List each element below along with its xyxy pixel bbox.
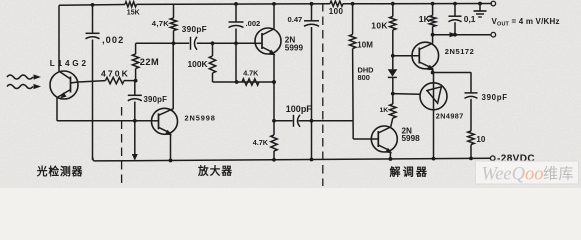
svg-text:10K: 10K: [371, 20, 388, 30]
svg-text:22M: 22M: [140, 57, 159, 67]
svg-text:4,7K: 4,7K: [152, 19, 169, 28]
svg-text:390pF: 390pF: [482, 93, 508, 102]
svg-text:100pF: 100pF: [286, 104, 313, 114]
svg-text:800: 800: [358, 73, 370, 82]
svg-text:2N5172: 2N5172: [445, 47, 475, 56]
svg-text:100K: 100K: [188, 59, 208, 69]
svg-text:5999: 5999: [285, 43, 304, 52]
svg-text:1K: 1K: [419, 14, 431, 24]
svg-text:维库: 维库: [543, 166, 574, 183]
svg-text:2N4987: 2N4987: [436, 111, 464, 120]
svg-text:390pF: 390pF: [182, 25, 207, 34]
svg-text:放大器: 放大器: [197, 165, 233, 178]
svg-text:0.47: 0.47: [288, 15, 303, 24]
svg-text:5998: 5998: [402, 134, 421, 143]
svg-text:390pF: 390pF: [144, 95, 168, 104]
svg-text:1K: 1K: [380, 107, 389, 114]
svg-text:10M: 10M: [357, 41, 373, 50]
svg-text:2N5998: 2N5998: [185, 113, 216, 122]
svg-text:0,1: 0,1: [464, 14, 476, 24]
svg-text:100: 100: [329, 7, 344, 16]
svg-text:,002: ,002: [102, 35, 124, 45]
svg-text:解调器: 解调器: [390, 164, 430, 178]
svg-text:470K: 470K: [101, 69, 130, 79]
svg-text:4.7K: 4.7K: [253, 138, 269, 147]
svg-text:L14G2: L14G2: [50, 59, 89, 68]
svg-text:15K: 15K: [127, 10, 140, 17]
svg-text:4.7K: 4.7K: [243, 68, 259, 77]
svg-text:.002: .002: [246, 19, 261, 28]
svg-text:WeeQoo: WeeQoo: [482, 165, 544, 185]
svg-text:光检测器: 光检测器: [36, 164, 83, 178]
svg-text:10: 10: [476, 135, 485, 144]
